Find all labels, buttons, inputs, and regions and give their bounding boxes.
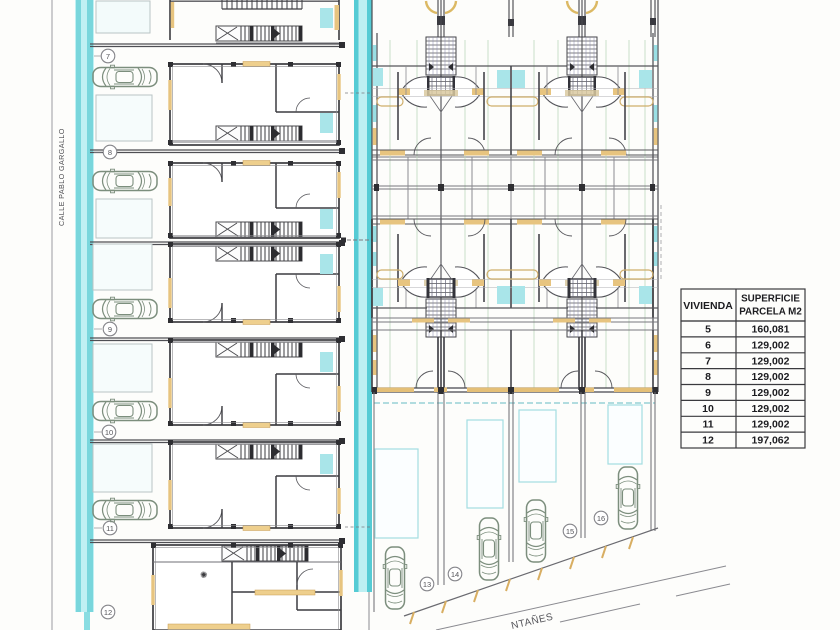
svg-text:5: 5 — [705, 324, 711, 336]
svg-text:VIVIENDA: VIVIENDA — [683, 300, 733, 312]
svg-text:129,002: 129,002 — [752, 403, 790, 415]
svg-text:11: 11 — [106, 524, 114, 533]
svg-text:12: 12 — [702, 435, 714, 447]
svg-text:PARCELA M2: PARCELA M2 — [739, 307, 802, 318]
svg-text:197,062: 197,062 — [752, 435, 790, 447]
svg-text:129,002: 129,002 — [752, 355, 790, 367]
svg-text:6: 6 — [705, 339, 711, 351]
svg-text:9: 9 — [705, 387, 711, 399]
svg-text:129,002: 129,002 — [752, 371, 790, 383]
svg-text:7: 7 — [705, 355, 711, 367]
svg-text:10: 10 — [702, 403, 714, 415]
svg-text:14: 14 — [451, 570, 459, 579]
svg-text:9: 9 — [108, 325, 112, 334]
svg-text:8: 8 — [705, 371, 711, 383]
svg-text:CALLE PABLO GARGALLO: CALLE PABLO GARGALLO — [57, 128, 66, 226]
svg-text:SUPERFICIE: SUPERFICIE — [741, 294, 800, 305]
svg-text:11: 11 — [702, 419, 713, 431]
svg-text:15: 15 — [566, 527, 574, 536]
svg-text:10: 10 — [105, 428, 113, 437]
svg-text:129,002: 129,002 — [752, 339, 790, 351]
svg-text:7: 7 — [106, 52, 110, 61]
svg-text:13: 13 — [423, 580, 431, 589]
svg-text:8: 8 — [108, 148, 112, 157]
svg-text:160,081: 160,081 — [752, 324, 790, 336]
svg-text:16: 16 — [597, 514, 605, 523]
svg-text:✺: ✺ — [200, 570, 208, 580]
svg-text:129,002: 129,002 — [752, 387, 790, 399]
svg-text:12: 12 — [104, 608, 112, 617]
svg-text:129,002: 129,002 — [752, 419, 790, 431]
